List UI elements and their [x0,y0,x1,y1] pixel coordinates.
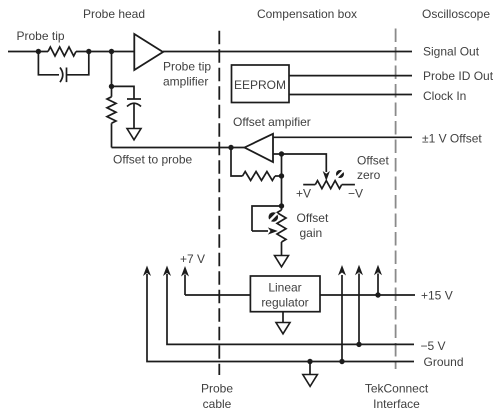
svg-text:EEPROM: EEPROM [234,78,286,92]
svg-text:−V: −V [348,187,363,201]
svg-text:Offset: Offset [297,211,329,225]
svg-text:Clock In: Clock In [423,89,466,103]
svg-text:Probe tip: Probe tip [17,29,65,43]
svg-text:Offset ampifier: Offset ampifier [233,115,311,129]
svg-text:Compensation box: Compensation box [257,7,357,21]
svg-text:+V: +V [296,187,311,201]
svg-text:Offset to probe: Offset to probe [113,153,192,167]
svg-text:amplifier: amplifier [163,75,208,89]
svg-text:+15 V: +15 V [421,289,453,303]
svg-text:−5 V: −5 V [421,339,446,353]
svg-text:Interface: Interface [373,397,420,411]
svg-text:Probe head: Probe head [83,7,145,21]
svg-text:Signal Out: Signal Out [423,45,480,59]
svg-text:Linear: Linear [268,281,301,295]
svg-text:Probe tip: Probe tip [163,60,211,74]
svg-text:regulator: regulator [261,296,308,310]
svg-text:±1 V Offset: ±1 V Offset [422,132,482,146]
svg-text:Offset: Offset [357,154,389,168]
svg-text:cable: cable [203,397,232,411]
svg-text:gain: gain [300,226,323,240]
svg-text:Probe ID Out: Probe ID Out [423,69,494,83]
svg-text:+7 V: +7 V [180,252,205,266]
svg-text:Ground: Ground [424,355,464,369]
svg-text:Probe: Probe [201,382,233,396]
svg-text:TekConnect: TekConnect [365,382,429,396]
svg-text:zero: zero [357,168,381,182]
svg-text:Oscilloscope: Oscilloscope [422,7,490,21]
